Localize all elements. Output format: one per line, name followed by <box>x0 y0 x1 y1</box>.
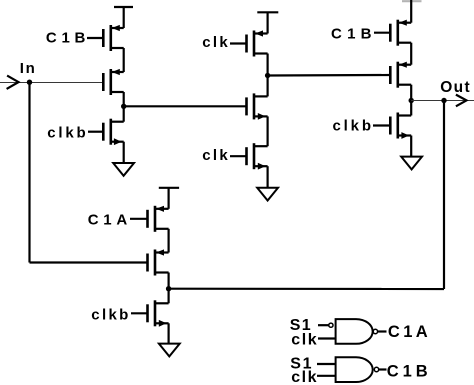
wire G2 output to C1B <box>379 368 387 370</box>
svg-text:clkb: clkb <box>47 125 85 142</box>
wire M7 drain to M8 source <box>410 43 412 65</box>
VDD rail stack 3 <box>402 0 422 23</box>
wire G1 output to C1A <box>378 330 387 332</box>
wire M11 drain to node X4 <box>168 273 170 304</box>
NAND gate G1 <box>336 319 373 344</box>
output bubble G1 <box>373 329 377 333</box>
VDD rail stack 4 (bottom) <box>159 188 179 209</box>
svg-text:C1A: C1A <box>388 323 428 341</box>
svg-text:clkb: clkb <box>333 118 372 135</box>
wire S1 to G1 input bubble <box>318 324 329 326</box>
wire node X1 to gate of M5 (stack 2) <box>124 105 247 107</box>
wire node X2 to gate of M8 (stack 3) <box>268 74 391 77</box>
transistor M4 PMOS gate clk (stack 2 top) <box>230 30 268 56</box>
wire M5 source to M6 drain <box>267 116 269 146</box>
wire M4 drain to node X2 <box>267 54 269 97</box>
transistor M8 PMOS gate from X2 (stack 3 middle) <box>390 62 411 88</box>
svg-text:clk: clk <box>202 34 228 51</box>
transistor M3 NMOS gate clkb (stack 1 bottom) <box>88 119 124 145</box>
input wire In with arrowhead <box>0 76 103 89</box>
wire M2 drain to node X1 <box>123 92 125 122</box>
svg-text:C1B: C1B <box>46 30 86 47</box>
svg-text:clk: clk <box>202 147 228 164</box>
node Out junction dot <box>409 98 414 103</box>
wire M12 source to ground <box>168 323 170 343</box>
ground stack 2 <box>257 188 278 201</box>
wire M10 drain to M11 source <box>168 229 170 253</box>
transistor M1 PMOS gate C1B (stack 1 top) <box>87 25 124 51</box>
wire In node to gate of M11 <box>30 261 148 263</box>
svg-text:In: In <box>20 60 35 77</box>
wire node X4 to Out vertical <box>169 288 444 290</box>
transistor M6 NMOS gate clk (stack 2 bottom) <box>230 143 268 169</box>
transistor M2 PMOS gate In (stack 1 middle) <box>103 69 123 95</box>
svg-text:clk: clk <box>291 331 317 348</box>
wire M1 drain to M2 source <box>123 48 125 72</box>
wire M6 source to ground <box>267 166 269 188</box>
svg-text:C1B: C1B <box>387 363 428 381</box>
node In junction dot <box>27 80 32 85</box>
wire S1 to G2 <box>317 363 336 365</box>
wire Out node down right side <box>443 101 445 290</box>
wire clk to G1 <box>318 337 336 339</box>
node X4 (stack 4 output) <box>166 286 171 291</box>
wire clk to G2 <box>317 375 336 377</box>
NAND gate G2 <box>336 357 373 382</box>
wire M8 drain to node Out <box>410 85 412 116</box>
transistor M12 NMOS gate clkb (stack 4 bottom) <box>131 300 169 326</box>
ground stack 1 <box>113 163 134 176</box>
transistor M5 NMOS gate from X1 (stack 2 middle) <box>247 93 268 119</box>
VDD rail stack 2 <box>257 12 278 33</box>
node X1 (stack 1 output) <box>121 104 126 109</box>
svg-text:C1A: C1A <box>88 212 128 229</box>
ground stack 4 <box>159 344 180 357</box>
svg-text:clkb: clkb <box>91 307 128 324</box>
input bubble G1 S1 <box>329 323 333 327</box>
VDD rail stack 1 <box>114 7 133 28</box>
svg-text:clk: clk <box>291 369 316 385</box>
output bubble G2 <box>374 367 378 371</box>
wire M9 source to ground <box>410 136 412 157</box>
wire M3 source to ground <box>123 142 125 163</box>
ground stack 3 <box>401 157 422 170</box>
svg-text:C1B: C1B <box>331 26 372 43</box>
output wire Out with arrowhead <box>411 95 474 107</box>
transistor M10 PMOS gate C1A (stack 4 top) <box>130 206 169 232</box>
node Out branch dot <box>441 98 446 103</box>
wire In node down left side <box>28 82 30 262</box>
transistor M11 PMOS gate from In (stack 4 middle) <box>148 249 169 275</box>
svg-text:Out: Out <box>440 79 470 96</box>
transistor M7 PMOS gate C1B (stack 3 top) <box>374 20 411 46</box>
transistor M9 NMOS gate clkb (stack 3 bottom) <box>373 113 411 139</box>
node X2 (stack 2 internal) <box>265 73 270 78</box>
